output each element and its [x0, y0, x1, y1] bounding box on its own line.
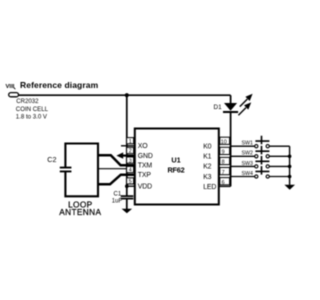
- svg-text:GND: GND: [138, 153, 153, 160]
- svg-text:9: 9: [222, 150, 225, 156]
- wire: pin 10 to SW1: [230, 145, 256, 147]
- wire: antenna top tap to TXM pin 3: [98, 155, 135, 165]
- svg-text:COIN CELL: COIN CELL: [16, 106, 49, 113]
- svg-text:K2: K2: [203, 164, 211, 171]
- ground right: [284, 185, 295, 190]
- svg-text:K1: K1: [203, 154, 211, 161]
- wire: D1 anode from rail, cathode down to LED pin 6: [230, 95, 232, 186]
- svg-text:5: 5: [129, 179, 132, 185]
- svg-text:4: 4: [129, 168, 132, 174]
- title: VIII. Reference diagram: [6, 80, 99, 91]
- svg-text:6: 6: [222, 180, 225, 186]
- svg-text:XO: XO: [138, 143, 148, 150]
- svg-text:8: 8: [222, 160, 225, 166]
- switch SW2: [242, 146, 290, 158]
- svg-text:TXP: TXP: [138, 172, 152, 179]
- U1 left pin labels: [138, 143, 153, 190]
- wire: pin 9 to SW2: [230, 155, 256, 157]
- svg-text:ANTENNA: ANTENNA: [59, 207, 101, 217]
- svg-text:C2: C2: [47, 155, 56, 164]
- svg-text:1: 1: [129, 139, 132, 145]
- pin 1 stub (XO): [121, 145, 135, 147]
- battery value labels CR2032 / COIN CELL / 1.8 to 3.0 V: [16, 98, 49, 120]
- capacitor C1 plates: [121, 196, 134, 199]
- ground under C1: [122, 209, 133, 213]
- junction dot SW2/rail: [288, 155, 292, 159]
- svg-text:Reference diagram: Reference diagram: [20, 80, 99, 90]
- svg-text:SW1: SW1: [242, 141, 254, 147]
- wire: antenna bottom tap to TXP pin 4: [98, 175, 135, 185]
- switch SW4: [242, 166, 290, 178]
- U1 right pin labels: [203, 144, 216, 191]
- svg-text:U1: U1: [171, 155, 180, 164]
- svg-text:3: 3: [129, 158, 132, 164]
- svg-text:VDD: VDD: [138, 184, 152, 191]
- LED D1 triangle: [224, 103, 237, 111]
- wire: top VDD rail from battery to D1: [19, 94, 231, 96]
- wire: antenna middle tap to VDD rail: [98, 168, 127, 170]
- pin 6 stub to D1 line: [219, 185, 231, 187]
- junction dot: top rail to vertical VDD rail: [125, 93, 129, 97]
- junction dot SW3/rail: [288, 165, 292, 169]
- GND arrow on pin 2 wire: [116, 152, 134, 158]
- svg-text:D1: D1: [214, 104, 223, 111]
- svg-text:K3: K3: [203, 174, 211, 181]
- battery connector BT1 (coin cell terminal): [9, 93, 19, 97]
- pin 5 stub (VDD): [127, 185, 135, 187]
- wire: vertical VDD rail down to C1: [126, 95, 128, 196]
- svg-text:1uF: 1uF: [112, 199, 123, 205]
- C1 labels: [112, 192, 123, 205]
- op-amp U1: IC RF62 box: [135, 129, 219, 205]
- junction dot SW4/rail: [288, 175, 292, 179]
- svg-text:C1: C1: [114, 192, 122, 198]
- svg-text:TXM: TXM: [138, 163, 153, 170]
- wire: right common rail: [289, 146, 291, 185]
- svg-text:K0: K0: [203, 144, 211, 151]
- pin number boxes left 1-5: [127, 138, 134, 184]
- junction dot: VDD pin to rail: [125, 184, 129, 188]
- LED light arrows: [238, 94, 252, 115]
- svg-text:SW2: SW2: [242, 151, 254, 157]
- LOOP ANTENNA label: [59, 200, 101, 218]
- svg-text:2: 2: [129, 149, 132, 155]
- wire: pin 8 to SW3: [230, 165, 256, 167]
- svg-text:CR2032: CR2032: [16, 98, 39, 105]
- right pin number boxes 10,9,8,7,6: [220, 137, 230, 185]
- svg-text:LED: LED: [203, 184, 216, 191]
- switch SW1: [242, 136, 290, 148]
- loop antenna E1 (box with gap for C2 on left edge): [65, 144, 98, 197]
- svg-text:1.8 to 3.0 V: 1.8 to 3.0 V: [16, 113, 48, 120]
- svg-text:7: 7: [222, 170, 225, 176]
- switch SW3: [242, 156, 290, 168]
- LED D1 cathode bar: [223, 111, 238, 113]
- wire: C1 to ground: [126, 198, 128, 209]
- svg-text:SW3: SW3: [242, 161, 254, 167]
- svg-text:、: 、: [13, 84, 20, 91]
- svg-text:10: 10: [221, 140, 227, 146]
- svg-text:RF62: RF62: [167, 165, 184, 174]
- svg-text:SW4: SW4: [242, 171, 254, 177]
- wire: pin 7 to SW4: [230, 176, 256, 178]
- capacitor C2 plates: [60, 168, 72, 172]
